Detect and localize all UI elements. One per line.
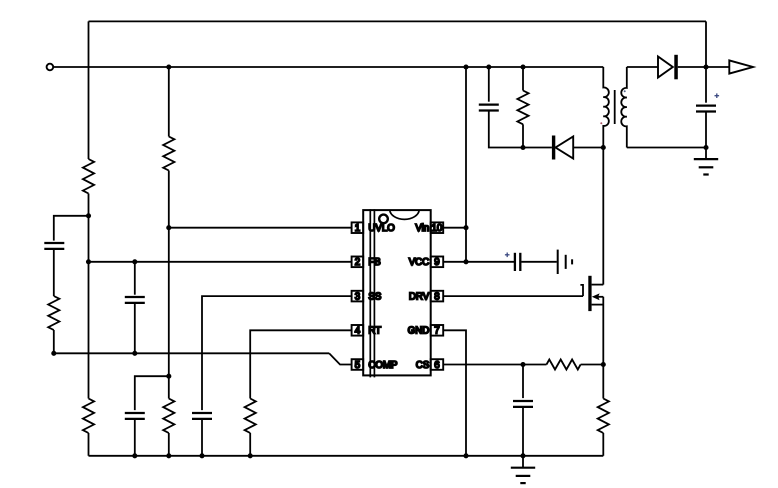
wire input rail bbox=[53, 66, 603, 68]
wire secondary top to diode bbox=[627, 66, 658, 68]
capacitor C7 snubber bbox=[479, 105, 499, 111]
junction CS filter tap bbox=[520, 362, 525, 367]
ground sideways VCC return bbox=[558, 250, 572, 274]
wire pin 7 GND bbox=[443, 330, 466, 456]
wire SS pin 3 bbox=[202, 296, 352, 410]
wire bbox=[201, 419, 203, 456]
wire pin 10 stub bbox=[443, 227, 466, 229]
pin 9 box bbox=[431, 257, 444, 269]
capacitor C4 soft-start bbox=[192, 413, 212, 419]
svg-text:1: 1 bbox=[355, 223, 360, 234]
junction UVLO top bbox=[166, 64, 171, 69]
wire pin 6 CS bbox=[443, 364, 546, 366]
resistor R7 CS filter bbox=[547, 360, 581, 370]
wire Vin vertical bbox=[465, 67, 467, 262]
wire bbox=[134, 303, 136, 353]
wire FB node vertical bbox=[88, 194, 90, 399]
junction FB node bbox=[86, 259, 91, 264]
pin 2 box bbox=[352, 257, 364, 269]
wire bbox=[168, 433, 170, 456]
pin 7 box bbox=[431, 325, 444, 337]
junction UVLO cap tap bbox=[166, 374, 171, 379]
wire bbox=[53, 249, 55, 296]
junction bbox=[463, 453, 468, 458]
junction CS sense node bbox=[601, 362, 606, 367]
svg-text:CS: CS bbox=[416, 360, 430, 371]
wire to bottom rail bbox=[88, 433, 90, 456]
pin 8 box bbox=[431, 291, 444, 303]
wire top feedback rail bbox=[89, 20, 707, 22]
T1 phase dot secondary bbox=[624, 90, 626, 92]
wire bbox=[249, 433, 251, 456]
U1 top notch bbox=[390, 210, 420, 219]
pin 10 box bbox=[431, 222, 444, 234]
wire comp branch top bbox=[54, 216, 89, 241]
wire secondary bottom bbox=[627, 147, 706, 149]
junction snubber cap top bbox=[486, 64, 491, 69]
svg-text:3: 3 bbox=[355, 292, 360, 303]
junction snubber R top bbox=[520, 64, 525, 69]
svg-text:VCC: VCC bbox=[409, 257, 429, 268]
diode D1 clamp bbox=[552, 136, 603, 160]
wire to output arrow bbox=[706, 66, 729, 68]
wire bottom ground rail bbox=[89, 455, 604, 457]
diode D2 output rectifier bbox=[658, 55, 706, 80]
wire Q1 drain to transformer bbox=[602, 148, 604, 285]
resistor R9 snubber bbox=[517, 91, 528, 125]
wire bbox=[705, 111, 707, 148]
junction bbox=[166, 453, 171, 458]
svg-text:GND: GND bbox=[408, 326, 430, 337]
junction switch node bbox=[601, 145, 606, 150]
wire FB to pin 2 bbox=[89, 261, 352, 263]
capacitor C8 output bbox=[696, 106, 716, 112]
wire top rail drop bbox=[705, 21, 707, 67]
transistor Q1 channel bar bbox=[588, 276, 591, 311]
resistor R6 timing bbox=[245, 399, 256, 434]
transformer T1 secondary bbox=[621, 67, 627, 148]
wire snubber bottom bbox=[489, 111, 552, 148]
svg-text:RT: RT bbox=[368, 326, 381, 337]
junction bbox=[199, 453, 204, 458]
svg-text:SS: SS bbox=[368, 292, 381, 303]
U1 pin-1 indicator circle bbox=[379, 215, 388, 224]
junction bbox=[248, 453, 253, 458]
svg-text:9: 9 bbox=[434, 257, 439, 268]
wire bbox=[602, 433, 604, 456]
junction pin 9 bbox=[463, 259, 468, 264]
wire VCC line bbox=[443, 261, 514, 263]
wire ground stub bbox=[705, 148, 707, 160]
pin 3 box bbox=[352, 291, 364, 303]
wire Q1 source to CS node bbox=[602, 297, 604, 365]
U1 inner double line bbox=[370, 209, 374, 377]
transistor Q1 drain stub bbox=[592, 284, 604, 286]
junction pin 10 bbox=[463, 225, 468, 230]
wire COMP jog to pin 5 bbox=[329, 353, 352, 364]
input terminal bbox=[47, 64, 54, 71]
wire ground stub bbox=[522, 456, 524, 468]
wire sense resistor top bbox=[602, 365, 604, 399]
svg-text:5: 5 bbox=[355, 360, 360, 371]
capacitor C1 compensation series bbox=[44, 243, 64, 249]
node Vout arrow bbox=[729, 60, 753, 73]
ground output bbox=[694, 159, 718, 174]
capacitor C2 feedback bbox=[125, 297, 145, 303]
wire CS cap vertical bbox=[522, 365, 524, 399]
svg-text:10: 10 bbox=[432, 223, 443, 234]
transistor Q1 gate bbox=[580, 285, 583, 296]
T1 phase dot primary bbox=[600, 122, 602, 124]
svg-text:FB: FB bbox=[368, 257, 380, 268]
transformer T1 primary bbox=[603, 67, 609, 148]
resistor R2 lower FB divider bbox=[83, 399, 94, 434]
resistor R8 current sense bbox=[598, 399, 609, 434]
junction on COMP line bbox=[132, 351, 137, 356]
transformer T1 core bbox=[614, 90, 616, 124]
svg-text:UVLO: UVLO bbox=[368, 223, 395, 234]
resistor R1 upper FB divider bbox=[83, 159, 94, 194]
transistor Q1 body arrow bbox=[592, 293, 604, 300]
junction main ground bbox=[520, 453, 525, 458]
junction FB comp tap bbox=[86, 213, 91, 218]
svg-text:8: 8 bbox=[434, 292, 439, 303]
resistor R4 upper UVLO divider bbox=[163, 137, 174, 171]
wire UVLO to pin 1 bbox=[169, 227, 352, 229]
wire bbox=[581, 364, 604, 366]
wire UVLO cap jog bbox=[135, 376, 169, 410]
wire UVLO divider vertical bbox=[168, 67, 170, 137]
plus polarity mark bbox=[715, 93, 720, 98]
ground main bbox=[511, 468, 535, 483]
pin 1 box bbox=[352, 222, 364, 234]
junction comp corner bbox=[51, 351, 56, 356]
wire output cap bbox=[705, 67, 707, 103]
wire DRV line bbox=[443, 295, 583, 297]
junction Vin rail tap bbox=[463, 64, 468, 69]
wire UVLO node vertical bbox=[168, 171, 170, 399]
wire bbox=[134, 262, 136, 295]
resistor R3 compensation series bbox=[48, 296, 59, 330]
junction output node bbox=[703, 64, 708, 69]
wire bbox=[522, 407, 524, 456]
junction output ground bbox=[703, 145, 708, 150]
plus polarity mark bbox=[505, 253, 510, 258]
resistor R5 lower UVLO divider bbox=[163, 399, 174, 434]
capacitor C3 UVLO filter bbox=[125, 413, 145, 419]
capacitor C5 VCC polarized bbox=[515, 253, 520, 271]
wire COMP line bbox=[54, 352, 329, 354]
capacitor C6 CS filter bbox=[513, 401, 533, 407]
wire FB divider vertical bbox=[88, 21, 90, 159]
junction bbox=[132, 453, 137, 458]
wire bbox=[53, 330, 55, 353]
junction snubber R bottom bbox=[520, 145, 525, 150]
pin 4 box bbox=[352, 325, 364, 337]
svg-text:6: 6 bbox=[434, 360, 439, 371]
svg-text:2: 2 bbox=[355, 257, 360, 268]
wire bbox=[488, 67, 490, 102]
junction feedback cap top bbox=[132, 259, 137, 264]
pin 5 box bbox=[352, 359, 364, 371]
op-amp U1 controller body bbox=[363, 210, 431, 375]
wire RT pin 4 bbox=[250, 330, 351, 398]
wire bbox=[134, 419, 136, 456]
wire bbox=[522, 67, 524, 91]
svg-text:DRV: DRV bbox=[409, 292, 430, 303]
transistor Q1 source stub bbox=[592, 304, 604, 306]
svg-text:7: 7 bbox=[434, 326, 439, 337]
junction UVLO pin tap bbox=[166, 225, 171, 230]
wire bbox=[521, 261, 556, 263]
svg-text:Vin: Vin bbox=[415, 223, 429, 234]
pin 6 box bbox=[431, 359, 444, 371]
svg-text:COMP: COMP bbox=[368, 360, 397, 371]
wire bbox=[522, 124, 524, 147]
svg-text:4: 4 bbox=[355, 326, 361, 337]
